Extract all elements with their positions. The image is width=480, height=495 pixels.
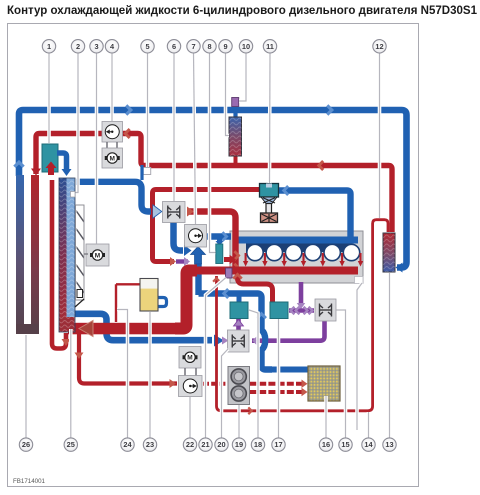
callout 18 — [251, 438, 264, 451]
arrow into expansion tank 13 — [396, 263, 403, 273]
wire red dashed turbo to heater upper — [250, 382, 305, 386]
wire blue radiator bottom outlet — [75, 314, 212, 340]
svg-text:18: 18 — [254, 440, 262, 449]
callout 20 — [215, 438, 228, 451]
svg-text:FB1714001: FB1714001 — [13, 478, 46, 485]
callout 4 — [105, 40, 118, 53]
callout 1 — [42, 40, 55, 53]
callout 11 — [263, 40, 276, 53]
svg-text:23: 23 — [146, 440, 154, 449]
arrow into heater core upper — [302, 380, 308, 389]
aux radiator bottom — [16, 324, 39, 334]
arrow into valve 6 core — [153, 206, 161, 218]
pump 4 motor — [102, 148, 123, 168]
arrow up on blue left leg — [14, 162, 23, 167]
svg-text:2: 2 — [76, 42, 80, 51]
leader 6 — [172, 53, 176, 201]
svg-text:21: 21 — [201, 440, 209, 449]
arrow down out of radiator — [62, 339, 71, 346]
arrow violet tip into valve D — [222, 337, 229, 345]
arrow left on red main line — [319, 161, 323, 170]
engine return band to lower band elbow — [175, 271, 197, 329]
callout 23 — [143, 438, 156, 451]
changeover valve 6 — [163, 202, 186, 223]
svg-text:Контур охлаждающей жидкости 6-: Контур охлаждающей жидкости 6-цилиндрово… — [7, 4, 477, 17]
aux radiator left leg — [16, 175, 24, 334]
leader 24 — [117, 310, 128, 438]
wire blue stub into heat exchanger A — [237, 296, 242, 303]
leader 8 — [210, 53, 216, 253]
leader 13 — [388, 273, 392, 438]
sensor 8 — [216, 244, 223, 264]
arrow left into thermostat — [284, 186, 288, 195]
wire red feed to thermostat — [153, 190, 260, 262]
svg-text:1: 1 — [47, 42, 51, 51]
svg-text:5: 5 — [145, 42, 149, 51]
fan motor 3 — [86, 244, 109, 266]
leader 17 — [277, 319, 281, 438]
check valve 5 housing — [143, 168, 151, 175]
arrow violet left into B second — [296, 307, 300, 315]
radiator sensor notch — [71, 192, 76, 198]
leader 25 — [69, 329, 73, 438]
arrow right into engine upper — [234, 251, 238, 259]
arrow violet right into C — [304, 307, 308, 315]
aux radiator right leg — [31, 175, 39, 334]
callout 24 — [121, 438, 134, 451]
arrow red into pump junction — [170, 257, 176, 266]
wire blue return up-leg to pump 7 — [195, 263, 201, 295]
heat exchanger 1 — [42, 144, 58, 172]
arrow down into sensor 8 — [216, 241, 224, 246]
wire blue stub to cooler 9 — [233, 110, 237, 118]
wire violet segment into pump junction — [176, 259, 188, 263]
callout 26 — [19, 438, 32, 451]
heat exchanger 17 — [270, 302, 288, 319]
arrow down on heater feed — [75, 353, 84, 360]
leader 15 — [337, 310, 346, 438]
engine block body — [230, 231, 363, 283]
electric coolant pump 4 — [102, 122, 123, 143]
svg-text:M: M — [95, 252, 100, 259]
svg-text:20: 20 — [217, 440, 225, 449]
callout 14 — [362, 438, 375, 451]
big arrow into radiator — [79, 321, 93, 337]
leader 14 — [367, 412, 371, 438]
turbocharger 19 — [228, 367, 250, 405]
wire blue valve 6 to pump 7 inlet — [174, 222, 184, 251]
svg-text:25: 25 — [67, 440, 75, 449]
wire thin red vent return line — [217, 220, 389, 411]
arrow violet right into C second — [309, 307, 313, 315]
pump 22 motor links — [185, 368, 196, 376]
engine lower red gallery — [237, 267, 358, 275]
cooler 13 tank — [383, 233, 395, 272]
wire blue stub to sensor 8 — [217, 239, 222, 243]
callout 7 — [187, 40, 200, 53]
wire red stub from cooler 9 — [234, 155, 238, 164]
wire red valve 6 outlet to engine inlet — [189, 212, 236, 270]
arrow up on blue return down-leg — [257, 314, 266, 318]
svg-text:26: 26 — [22, 440, 30, 449]
wire thin red expansion tank vent — [116, 284, 140, 322]
radiator outline — [59, 178, 75, 332]
leader 22 — [188, 397, 192, 438]
pump 7 inlet arrow — [191, 247, 206, 265]
changeover valve 15 — [315, 299, 336, 321]
wire violet exchanger A to valve D — [236, 319, 241, 330]
expansion tank 23 — [140, 279, 158, 312]
wire blue expansion tank loop — [159, 298, 167, 307]
leader 10 — [239, 53, 246, 101]
wire blue thermostat to engine — [278, 191, 351, 239]
arrow up from exchanger B into band — [233, 274, 241, 278]
wire blue bow over violet — [262, 330, 266, 350]
arrow up into heat exchanger 1 — [48, 166, 54, 175]
wire blue return line to pump 7 — [199, 294, 273, 370]
radiator cold column — [67, 178, 76, 317]
svg-text:M: M — [187, 355, 192, 362]
callout 17 — [272, 438, 285, 451]
svg-text:6: 6 — [172, 42, 176, 51]
leader 23 — [148, 312, 152, 438]
callout 19 — [232, 438, 245, 451]
aux pump motor 22 — [179, 347, 201, 369]
wire blue return heater side — [268, 367, 308, 373]
radiator hot column — [59, 178, 67, 332]
wire red heater feed line — [79, 334, 177, 384]
callout 15 — [339, 438, 352, 451]
wire red engine to heat exchanger B — [238, 271, 273, 303]
wire violet engine outlet down — [299, 282, 304, 306]
wire red main supply line — [122, 134, 392, 233]
wire red dashed turbo to heater lower — [250, 390, 305, 394]
leader 1 — [47, 53, 51, 143]
engine coolant gallery blue band — [237, 237, 358, 244]
arrow right on blue top run mid — [327, 105, 332, 114]
callout 5 — [141, 40, 154, 53]
radiator wave texture — [59, 178, 75, 332]
radiator hot column base — [59, 317, 75, 332]
engine cylinders 1-6 — [247, 244, 360, 260]
leader 19 — [237, 405, 241, 438]
auxiliary pump 22 — [179, 376, 203, 397]
arrow blue into valve D head — [214, 335, 224, 347]
leader 16 — [324, 396, 328, 438]
changeover valve 20 — [228, 330, 250, 352]
svg-text:10: 10 — [242, 42, 250, 51]
callout 13 — [383, 438, 396, 451]
svg-text:14: 14 — [364, 440, 373, 449]
pump 4 motor links — [107, 142, 117, 148]
arrow violet down — [297, 303, 306, 309]
arrow on vent return line — [248, 407, 251, 414]
callout 2 — [71, 40, 84, 53]
wire red from aux radiator to electric pump — [36, 134, 102, 175]
leader 3 — [95, 53, 99, 244]
leader 5 — [146, 53, 150, 167]
svg-text:13: 13 — [385, 440, 393, 449]
engine coolant down arrows — [243, 253, 363, 267]
arrow down into aux radiator right leg — [31, 169, 41, 176]
leader 2 — [76, 53, 79, 193]
leader 7 — [194, 53, 196, 224]
svg-text:17: 17 — [274, 440, 282, 449]
leader 21 — [206, 278, 227, 438]
leader 20 — [222, 349, 229, 438]
svg-text:7: 7 — [191, 42, 195, 51]
coolant pump 7 — [185, 225, 207, 248]
svg-text:9: 9 — [223, 42, 227, 51]
svg-text:12: 12 — [375, 42, 383, 51]
callout 3 — [90, 40, 103, 53]
leader 4 — [110, 53, 114, 121]
svg-text:16: 16 — [322, 440, 330, 449]
arrow right into pump 22 — [170, 379, 177, 388]
wire blue radiator outlet to valve 6 — [76, 182, 151, 212]
arrow right on blue top run near pump — [126, 105, 131, 114]
callout 9 — [219, 40, 232, 53]
callout 8 — [203, 40, 216, 53]
callout 10 — [239, 40, 252, 53]
arrow down into radiator top — [62, 169, 72, 176]
callout 21 — [199, 438, 212, 451]
wire red sensor 8 outlet — [224, 257, 230, 262]
check valve 5 blue stub — [140, 165, 143, 180]
leader 11 — [268, 53, 272, 183]
arrow right into engine lower — [234, 264, 238, 272]
engine bottom notch — [355, 277, 364, 284]
arrow into valve 6 — [153, 204, 163, 219]
heater core 16 — [308, 366, 340, 401]
svg-text:M: M — [110, 155, 115, 162]
arrow violet left into B — [291, 307, 295, 315]
arrow red sensor 8 to engine — [230, 255, 237, 265]
fan motor link — [84, 253, 88, 255]
arrow blue into pump 7 junction — [184, 245, 192, 256]
wire red engine return band — [186, 267, 241, 275]
svg-text:19: 19 — [235, 440, 243, 449]
svg-text:8: 8 — [207, 42, 211, 51]
svg-text:24: 24 — [123, 440, 132, 449]
svg-text:3: 3 — [94, 42, 98, 51]
callout 22 — [183, 438, 196, 451]
arrow into heater core lower — [302, 388, 308, 397]
wire violet valve C to valve D — [252, 321, 325, 341]
engine cylinder head dark band — [246, 237, 352, 252]
cooling fan 2 — [76, 205, 85, 300]
leader 12 — [378, 53, 382, 218]
leader 9 — [226, 53, 230, 136]
leader 18 — [249, 310, 258, 438]
svg-text:11: 11 — [266, 42, 274, 51]
wire blue heat exchanger 1 outlet — [57, 153, 67, 170]
svg-text:15: 15 — [341, 440, 349, 449]
wire blue main loop top — [19, 110, 407, 268]
heat exchanger 18 — [230, 302, 248, 319]
cooler 9 tank — [229, 117, 242, 156]
callout 12 — [373, 40, 386, 53]
arrow violet up to exchanger A — [234, 320, 244, 327]
wire red dashed pump 22 to turbocharger — [203, 382, 227, 386]
callout 6 — [167, 40, 180, 53]
wire red thick return band — [68, 323, 182, 335]
vent fitting 10 — [232, 98, 239, 107]
arrow right pump 7 outlet — [222, 232, 226, 240]
sensor 21 — [226, 268, 233, 278]
arrow left into pump 4 — [125, 129, 129, 138]
arrow red out of valve 6 — [187, 207, 194, 217]
leader 14a engine drain — [357, 283, 362, 430]
callout 16 — [319, 438, 332, 451]
leader 26 — [24, 335, 28, 438]
wire blue pump 7 outlet — [207, 233, 231, 239]
svg-text:22: 22 — [186, 440, 194, 449]
wire violet tee to exchanger B and valve C — [289, 308, 314, 313]
wire red radiator bottom to aux line — [52, 180, 66, 349]
thermostat 11 — [260, 184, 279, 198]
arrow left on blue return line — [224, 289, 228, 298]
arrow up on vent line top — [213, 278, 220, 281]
callout 25 — [64, 438, 77, 451]
arrow violet left into valve D — [254, 337, 258, 345]
arrow violet into pump junction — [184, 257, 190, 266]
